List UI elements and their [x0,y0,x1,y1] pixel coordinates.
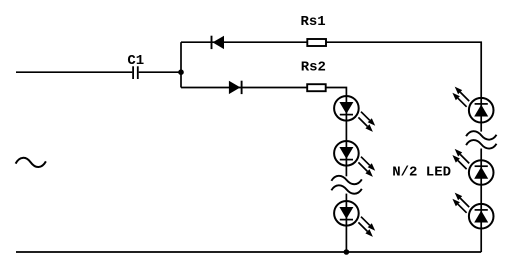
wire middle string [345,166,347,177]
LED D5 (middle string, third) [334,201,375,237]
svg-text:N/2 LED: N/2 LED [392,165,451,181]
diode D1 [212,36,225,49]
node junction dot [178,69,184,75]
wire middle string to bottom rail [345,226,347,252]
svg-text:Rs2: Rs2 [301,59,326,75]
LED D6 (right string, first) [452,87,493,123]
wire bottom rail [16,251,481,253]
AC source tilde [16,158,46,167]
wire middle string [345,194,347,202]
LED D4 (middle string, second) [334,141,375,177]
wire middle string [345,121,347,142]
wire right string to bottom rail [480,229,482,253]
resistor Rs2 [307,84,326,91]
wire junction vertical [180,42,182,87]
wire right string [480,185,482,204]
resistor Rs1 [307,39,326,46]
wire lower branch [181,88,346,97]
capacitor C1 [133,66,138,79]
wire C1 to junction [139,71,181,73]
LED D7 (right string, second) [452,149,493,185]
wire right string [480,123,482,132]
wire top rail [181,42,481,98]
svg-text:Rs1: Rs1 [301,14,326,30]
LED D8 (right string, third) [452,193,493,229]
wire input to C1 [16,71,132,73]
wire right string [480,149,482,161]
diode D2 [229,81,242,94]
svg-text:C1: C1 [127,53,144,69]
break squiggle middle string [331,176,361,194]
node bottom junction dot [344,249,350,255]
break squiggle right string [466,131,496,148]
LED D3 (middle string, first) [334,96,375,132]
